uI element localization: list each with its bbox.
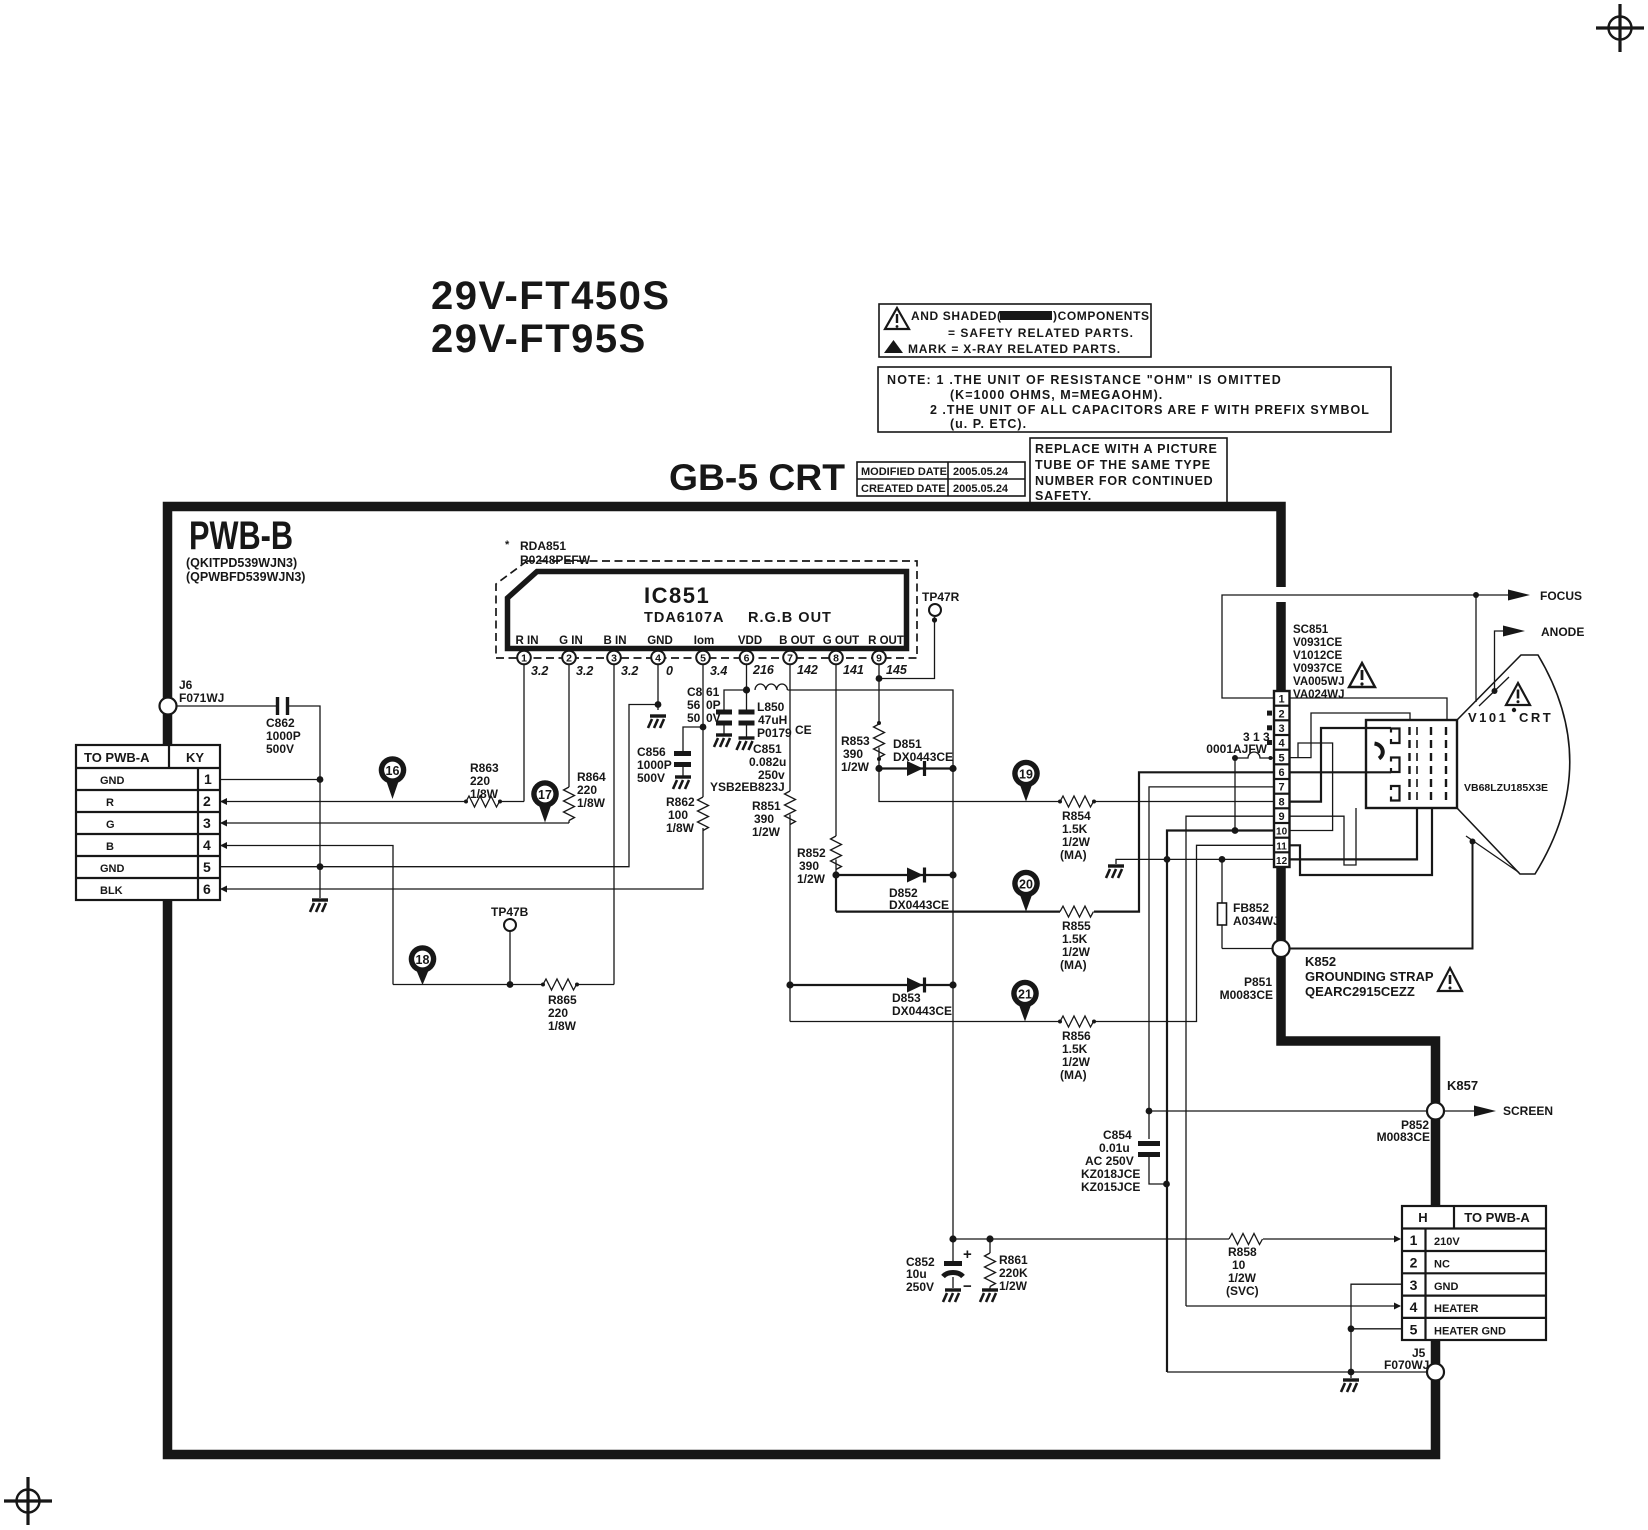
gun grid dashed line 1: [1408, 727, 1410, 804]
svg-text:220: 220: [548, 1006, 568, 1020]
svg-text:TP47B: TP47B: [491, 905, 529, 919]
svg-text:19: 19: [1019, 768, 1033, 782]
svg-text:B IN: B IN: [604, 635, 627, 647]
svg-text:18: 18: [416, 953, 430, 967]
svg-text:HEATER GND: HEATER GND: [1434, 1325, 1506, 1337]
svg-text:G OUT: G OUT: [823, 635, 859, 647]
svg-text:3: 3: [203, 815, 211, 831]
svg-text:1/8W: 1/8W: [666, 821, 695, 835]
svg-text:CE: CE: [795, 723, 812, 737]
svg-text:2 .THE UNIT OF ALL CAPACITORS: 2 .THE UNIT OF ALL CAPACITORS ARE F WITH…: [930, 403, 1370, 417]
svg-text:MODIFIED DATE: MODIFIED DATE: [861, 466, 947, 478]
warning triangle (socket): [1349, 663, 1375, 687]
wire R856 to CRT pin11: [1094, 845, 1274, 1021]
svg-text:250V: 250V: [906, 1280, 934, 1294]
CRT socket pin strip: [1274, 691, 1290, 867]
svg-text:AND SHADED(: AND SHADED(: [911, 309, 1002, 323]
wire CRT pin6 to cathode G: [1290, 771, 1392, 773]
wire R853 to D851 node: [878, 748, 880, 769]
svg-text:220: 220: [470, 774, 490, 788]
wire CRT pin11 to cathode B: [1290, 808, 1433, 875]
svg-text:4: 4: [655, 653, 661, 665]
resistor R851: [752, 791, 796, 839]
IC851 pin 9: [872, 651, 908, 677]
balloon 20: [1012, 870, 1040, 912]
svg-text:(K=1000 OHMS, M=MEGAOHM).: (K=1000 OHMS, M=MEGAOHM).: [950, 388, 1163, 402]
svg-text:VDD: VDD: [738, 635, 762, 647]
resistor R865: [541, 979, 579, 1033]
svg-text:R.G.B OUT: R.G.B OUT: [748, 610, 832, 626]
svg-text:9: 9: [876, 653, 882, 665]
svg-text:Iom: Iom: [694, 635, 714, 647]
svg-text:V1012CE: V1012CE: [1293, 650, 1343, 662]
svg-text:29V-FT450S: 29V-FT450S: [431, 274, 671, 318]
svg-text:8: 8: [833, 653, 839, 665]
K852 labels: [1305, 954, 1434, 999]
svg-text:B OUT: B OUT: [779, 635, 815, 647]
node gnd rail / pin12 line: [1164, 856, 1171, 863]
resistor R853: [841, 724, 885, 774]
svg-text:47uH: 47uH: [758, 713, 787, 727]
svg-text:AC 250V: AC 250V: [1085, 1154, 1134, 1168]
svg-text:390: 390: [843, 747, 863, 761]
svg-text:1/8W: 1/8W: [577, 796, 606, 810]
svg-text:390: 390: [754, 812, 774, 826]
resistor R863: [464, 761, 502, 807]
electron gun body: [1366, 720, 1457, 808]
wire IC pin9 down: [878, 665, 880, 725]
svg-text:GB-5 CRT: GB-5 CRT: [669, 457, 845, 498]
svg-text:56: 56: [687, 698, 701, 712]
svg-text:TDA6107A: TDA6107A: [644, 610, 725, 626]
wire IC pin6 VDD down: [746, 665, 748, 691]
svg-text:KZ018JCE: KZ018JCE: [1081, 1167, 1140, 1181]
svg-text:1000P: 1000P: [637, 758, 672, 772]
node IC gnd: [655, 701, 662, 708]
svg-text:TO PWB-A: TO PWB-A: [84, 750, 150, 765]
svg-text:6: 6: [744, 653, 750, 665]
node D852 anode: [832, 871, 839, 878]
svg-text:1/2W: 1/2W: [1228, 1271, 1257, 1285]
svg-text:R: R: [106, 797, 114, 809]
IC851 pin 1: [517, 651, 548, 678]
svg-text:L850: L850: [757, 700, 785, 714]
svg-text:M0083CE: M0083CE: [1377, 1130, 1430, 1144]
svg-text:1/8W: 1/8W: [470, 787, 499, 801]
svg-text:8: 8: [1279, 796, 1285, 808]
svg-text:K852: K852: [1305, 954, 1336, 969]
svg-text:1.5K: 1.5K: [1062, 932, 1088, 946]
capacitor C861 label: [687, 685, 721, 725]
svg-text:1.5K: 1.5K: [1062, 822, 1088, 836]
wire J6 to C862: [176, 705, 276, 707]
svg-text:4: 4: [203, 837, 211, 853]
test point TP47R: [879, 590, 960, 679]
svg-text:SC851: SC851: [1293, 624, 1329, 636]
balloon 19: [1012, 760, 1040, 802]
node gnd to J5 line: [1348, 1369, 1355, 1376]
jumper 313 0001AJFW: [1206, 730, 1273, 831]
svg-text:TO PWB-A: TO PWB-A: [1464, 1210, 1530, 1225]
wire focus lead down to bell: [1475, 595, 1477, 702]
svg-text:DX0443CE: DX0443CE: [889, 898, 949, 912]
node D852 cathode / VDD rail: [949, 871, 956, 878]
svg-text:R864: R864: [577, 770, 606, 784]
frame gap for FOCUS line: [1271, 587, 1291, 602]
svg-text:6: 6: [1279, 767, 1285, 779]
svg-text:NC: NC: [1434, 1259, 1450, 1271]
wire H table gnd riser: [1351, 1284, 1402, 1378]
svg-text:DX0443CE: DX0443CE: [893, 750, 953, 764]
svg-text:GND: GND: [647, 635, 673, 647]
node C854 to ground rail: [1163, 1181, 1170, 1188]
wire row4 B: [220, 842, 393, 985]
svg-text:1/2W: 1/2W: [797, 872, 826, 886]
wire ground rail to J5: [1167, 1371, 1428, 1373]
wire FB852 to K852: [1222, 948, 1274, 950]
diode D852 DX0443CE: [836, 868, 953, 913]
svg-text:2: 2: [1279, 708, 1285, 720]
note box (resistance/capacitor units): [878, 367, 1391, 432]
svg-text:216: 216: [752, 663, 775, 677]
svg-text:50: 50: [687, 711, 701, 725]
svg-text:TP47R: TP47R: [922, 590, 960, 604]
cathode G bracket: [1391, 758, 1400, 773]
node D853 anode: [786, 981, 793, 988]
svg-text:)COMPONENTS: )COMPONENTS: [1053, 309, 1150, 323]
svg-text:K857: K857: [1447, 1078, 1478, 1093]
svg-text:D853: D853: [892, 991, 921, 1005]
svg-text:QEARC2915CEZZ: QEARC2915CEZZ: [1305, 984, 1415, 999]
wire CRT pin10 tie: [1290, 743, 1333, 831]
wire row3 G: [220, 820, 569, 827]
P851 label: [1220, 975, 1273, 1002]
svg-text:(u. P. ETC).: (u. P. ETC).: [950, 417, 1027, 431]
wire R851 to D853 node: [789, 815, 791, 986]
wire CRT pin8 to cathode R: [1290, 728, 1392, 802]
svg-text:145: 145: [886, 663, 908, 677]
svg-text:1/2W: 1/2W: [841, 760, 870, 774]
svg-text:A034WJ: A034WJ: [1233, 914, 1280, 928]
inductor L850: [755, 684, 812, 740]
svg-text:V0937CE: V0937CE: [1293, 663, 1343, 675]
svg-text:1000P: 1000P: [266, 729, 301, 743]
svg-text:2: 2: [566, 653, 572, 665]
H table (TO PWB-A): [1402, 1206, 1546, 1340]
svg-text:3.2: 3.2: [531, 664, 548, 678]
svg-text:FOCUS: FOCUS: [1540, 589, 1582, 603]
svg-text:5: 5: [203, 859, 211, 875]
node jumper top: [1232, 827, 1239, 834]
svg-text:(QPWBFD539WJN3): (QPWBFD539WJN3): [186, 570, 305, 584]
ground (H table): [1341, 1380, 1359, 1392]
svg-text:KZ015JCE: KZ015JCE: [1081, 1180, 1140, 1194]
CRT outer dag diagonal: [1466, 836, 1519, 873]
svg-text:SCREEN: SCREEN: [1503, 1104, 1553, 1118]
svg-text:R865: R865: [548, 993, 577, 1007]
gun grid dashed line 4: [1445, 727, 1447, 804]
wire row1 GND: [220, 779, 320, 781]
wire VDD rail top: [788, 690, 954, 1239]
svg-text:C8: C8: [687, 685, 703, 699]
node row5/C862: [317, 863, 324, 870]
svg-text:29V-FT95S: 29V-FT95S: [431, 317, 647, 361]
svg-text:ANODE: ANODE: [1541, 625, 1584, 639]
node heater gnd: [1348, 1325, 1355, 1332]
svg-text:4: 4: [1410, 1299, 1418, 1315]
wire CRT pin7 to screen node: [1149, 787, 1274, 1139]
svg-text:R852: R852: [797, 846, 826, 860]
resistor R855: [1060, 906, 1094, 972]
wire R864 to row3: [568, 821, 570, 824]
wire pin8 outlet down: [835, 875, 837, 912]
gun grid dashed line 3: [1430, 727, 1432, 804]
ANODE arrow: [1492, 625, 1585, 694]
svg-text:SAFETY.: SAFETY.: [1035, 489, 1092, 503]
IC851 pin 8: [829, 651, 864, 677]
svg-text:2: 2: [203, 793, 211, 809]
ground (R861): [980, 1290, 998, 1302]
capacitor C856: [637, 727, 703, 785]
wire screen line: [1149, 1110, 1427, 1112]
svg-text:VB68LZU185X3E: VB68LZU185X3E: [1464, 782, 1548, 794]
svg-text:G: G: [106, 819, 115, 831]
svg-text:IC851: IC851: [644, 583, 710, 608]
resistor R856: [1058, 1016, 1096, 1082]
svg-text:0.082u: 0.082u: [749, 755, 786, 769]
wire R865 to IC pin3: [577, 984, 614, 986]
node dag: [1470, 839, 1476, 845]
svg-text:= SAFETY RELATED PARTS.: = SAFETY RELATED PARTS.: [948, 326, 1134, 340]
wire R858 to H table pin1: [1263, 1236, 1401, 1243]
svg-text:NOTE: 1 .THE UNIT OF RESISTANC: NOTE: 1 .THE UNIT OF RESISTANCE "OHM" IS…: [887, 373, 1282, 387]
resistor R858: [1226, 1234, 1263, 1299]
svg-text:500V: 500V: [637, 771, 665, 785]
connector K857 screen: [1427, 1078, 1478, 1120]
ground (CRT pin12 line): [1106, 859, 1274, 878]
wire IC pin3 down to R865 line: [613, 665, 615, 985]
svg-text:11: 11: [1276, 841, 1287, 852]
svg-text:0.01u: 0.01u: [1099, 1141, 1130, 1155]
svg-text:RDA851: RDA851: [520, 539, 566, 553]
svg-text:HEATER: HEATER: [1434, 1303, 1478, 1315]
svg-text:C862: C862: [266, 716, 295, 730]
svg-text:GND: GND: [100, 863, 125, 875]
svg-text:1/8W: 1/8W: [548, 1019, 577, 1033]
cathode R bracket: [1391, 729, 1400, 744]
svg-text:5: 5: [1279, 752, 1285, 764]
node D853 cathode / VDD rail: [949, 981, 956, 988]
FOCUS loop from CRT pin1: [1222, 595, 1513, 698]
svg-text:1.5K: 1.5K: [1062, 1042, 1088, 1056]
svg-text:1/2W: 1/2W: [752, 825, 781, 839]
svg-text:3: 3: [1410, 1277, 1418, 1293]
svg-text:R861: R861: [999, 1253, 1028, 1267]
svg-text:YSB2EB823J: YSB2EB823J: [710, 780, 785, 794]
wire B output line (21): [790, 1021, 1060, 1023]
wire CRT pin10 to ground rail: [1167, 831, 1274, 1373]
svg-text:17: 17: [538, 788, 552, 802]
svg-text:10u: 10u: [906, 1267, 927, 1281]
resistor R861: [985, 1239, 1029, 1293]
svg-text:−: −: [963, 1278, 972, 1295]
svg-text:GND: GND: [1434, 1281, 1459, 1293]
svg-text:FB852: FB852: [1233, 901, 1269, 915]
table TO PWB-A / KY: [76, 745, 220, 900]
svg-text:CREATED DATE: CREATED DATE: [861, 483, 946, 495]
CRT inner coating (focus) diagonal: [1479, 677, 1509, 706]
svg-text:H: H: [1418, 1210, 1427, 1225]
wire row5 GND to IC gnd: [220, 705, 658, 867]
node screen line: [1146, 1108, 1153, 1115]
wire heater row to H table pin4: [1186, 1303, 1401, 1310]
svg-text:2005.05.24: 2005.05.24: [953, 466, 1009, 478]
svg-text:VA005WJ: VA005WJ: [1293, 676, 1345, 688]
svg-text:1: 1: [1410, 1232, 1418, 1248]
wire row2 R to R863: [220, 798, 466, 805]
balloon 18: [409, 945, 437, 985]
svg-text:7: 7: [787, 653, 793, 665]
svg-text:V101: V101: [1468, 710, 1508, 725]
wire IC pin5 Iom down: [702, 665, 704, 798]
connector J5 F070WJ: [1384, 1346, 1444, 1381]
svg-text:1/2W: 1/2W: [1062, 945, 1091, 959]
svg-text:C856: C856: [637, 745, 666, 759]
svg-text:F070WJ: F070WJ: [1384, 1358, 1429, 1372]
SC851 socket labels: [1293, 624, 1345, 701]
gun grid dashed line 2: [1416, 727, 1418, 804]
svg-text:12: 12: [1276, 856, 1288, 867]
NC stub pin2: [1267, 711, 1272, 716]
node D851 anode: [875, 765, 882, 772]
svg-text:F071WJ: F071WJ: [179, 691, 224, 705]
PWB-B board frame: [168, 507, 1436, 1455]
svg-text:2005.05.24: 2005.05.24: [953, 483, 1009, 495]
svg-text:61: 61: [706, 685, 720, 699]
svg-text:*: *: [505, 539, 510, 551]
wire R output line (19): [879, 769, 1060, 802]
svg-text:6: 6: [203, 881, 211, 897]
svg-text:C854: C854: [1103, 1128, 1132, 1142]
svg-text:V0931CE: V0931CE: [1293, 637, 1343, 649]
wire H table heater-gnd row: [1351, 1328, 1402, 1330]
svg-text:KY: KY: [186, 750, 204, 765]
CRT V101 bell outline: [1457, 655, 1570, 874]
resistor R862: [666, 795, 709, 835]
svg-text:B: B: [106, 841, 114, 853]
diode D851 DX0443CE: [879, 737, 953, 776]
CRT labels: [1464, 708, 1553, 794]
svg-text:5: 5: [700, 653, 706, 665]
svg-text:10: 10: [1232, 1258, 1246, 1272]
registration mark bottom-left: [4, 1477, 52, 1525]
RDA851 dashed outline: [496, 539, 917, 658]
wire IC pin2 down: [568, 665, 570, 788]
node VDD: [743, 686, 750, 693]
svg-text:1: 1: [521, 653, 527, 665]
resistor R854: [1058, 796, 1096, 862]
wire CRT pin9 to heater: [1290, 808, 1357, 865]
svg-text:(QKITPD539WJN3): (QKITPD539WJN3): [186, 556, 297, 570]
svg-text:P0179: P0179: [757, 726, 792, 740]
svg-text:NUMBER FOR CONTINUED: NUMBER FOR CONTINUED: [1035, 474, 1214, 488]
balloon 21: [1011, 980, 1039, 1022]
node FB852 top: [1219, 856, 1226, 863]
svg-text:500V: 500V: [266, 742, 294, 756]
svg-text:R862: R862: [666, 795, 695, 809]
IC851 pin 6: [740, 651, 775, 677]
warning triangle (CRT): [1506, 683, 1530, 705]
op-amp IC851 TDA6107A box: [508, 572, 907, 649]
svg-text:R856: R856: [1062, 1029, 1091, 1043]
svg-text:100: 100: [668, 808, 688, 822]
capacitor C852 (electrolytic): [906, 1239, 972, 1295]
node pin9 / TP47R: [876, 675, 883, 682]
ground (IC851 pin4): [648, 716, 666, 728]
svg-text:3: 3: [611, 653, 617, 665]
svg-text:1/2W: 1/2W: [1062, 1055, 1091, 1069]
heater crescent: [1375, 743, 1384, 759]
svg-text:20: 20: [1019, 878, 1033, 892]
replace picture tube note box: [1030, 438, 1227, 503]
svg-text:220: 220: [577, 783, 597, 797]
svg-text:J6: J6: [179, 678, 193, 692]
capacitor C851: [710, 690, 786, 794]
svg-text:5: 5: [1410, 1321, 1418, 1337]
svg-text:C851: C851: [753, 742, 782, 756]
wire CRT pin12 to gun shield: [1290, 808, 1418, 859]
capacitor C854: [1081, 1128, 1167, 1194]
IC851 pin 7: [783, 651, 818, 677]
FOCUS arrow: [1508, 589, 1582, 603]
ground (C852): [943, 1290, 961, 1302]
svg-text:16: 16: [386, 764, 400, 778]
resistor R852: [797, 836, 842, 886]
svg-text:G IN: G IN: [559, 635, 583, 647]
modified/created date table: [857, 462, 1025, 496]
ferrite bead FB852 A034WJ: [1218, 859, 1280, 948]
svg-text:(SVC): (SVC): [1226, 1284, 1259, 1298]
NC stub pin3: [1267, 725, 1272, 730]
node C856 tap: [700, 724, 707, 731]
SCREEN arrow: [1444, 1104, 1553, 1118]
P852 label: [1377, 1118, 1430, 1144]
svg-text:1/2W: 1/2W: [1062, 835, 1091, 849]
svg-text:GROUNDING STRAP: GROUNDING STRAP: [1305, 969, 1434, 984]
node row1/C862: [317, 776, 324, 783]
wire K852 to CRT dag: [1290, 842, 1473, 949]
svg-text:3.2: 3.2: [621, 664, 638, 678]
wire IC pin4 GND: [657, 665, 659, 711]
svg-text:R863: R863: [470, 761, 499, 775]
connector K852 grounding strap node: [1273, 940, 1290, 957]
balloon 16: [379, 756, 407, 799]
wire IC pin1 down to R wire: [523, 665, 525, 802]
svg-text:M0083CE: M0083CE: [1220, 988, 1273, 1002]
svg-text:R858: R858: [1228, 1245, 1257, 1259]
balloon 17: [531, 780, 559, 822]
svg-text:390: 390: [799, 859, 819, 873]
svg-text:220K: 220K: [999, 1266, 1028, 1280]
wire IC pin8 down: [835, 665, 837, 837]
node D851 cathode / VDD rail: [949, 765, 956, 772]
NC stub pin4: [1267, 740, 1272, 745]
svg-text:R IN: R IN: [516, 635, 539, 647]
wire R854 to CRT pin8: [1094, 801, 1274, 803]
svg-text:0: 0: [666, 664, 673, 678]
svg-text:3: 3: [1279, 723, 1285, 735]
svg-text:9: 9: [1279, 811, 1285, 823]
